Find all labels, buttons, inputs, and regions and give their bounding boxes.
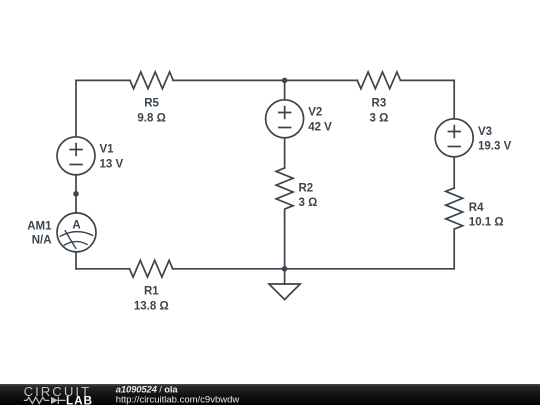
label V1: [100, 144, 124, 171]
node dot V1-AM1: [73, 191, 79, 197]
svg-text:V2: V2: [308, 107, 322, 119]
ammeter AM1: [57, 213, 96, 252]
voltage source V2: [266, 100, 304, 138]
resistor R2: [276, 168, 293, 216]
svg-text:N/A: N/A: [32, 235, 52, 247]
svg-text:R2: R2: [299, 182, 314, 194]
svg-text:13.8 Ω: 13.8 Ω: [134, 301, 169, 313]
wire bottom segment A: [76, 268, 130, 270]
label R2: [299, 182, 318, 209]
svg-text:13 V: 13 V: [100, 158, 124, 170]
node top junction: [282, 78, 288, 84]
svg-text:3 Ω: 3 Ω: [299, 197, 318, 209]
resistor R4: [446, 188, 463, 236]
label R4: [469, 202, 504, 229]
wire V2 to R2: [284, 138, 286, 168]
wire R2 to bottom junction: [284, 216, 286, 269]
svg-text:42 V: 42 V: [308, 121, 332, 133]
wire V1 to AM1: [75, 175, 77, 213]
wire bottom segment B: [173, 268, 455, 270]
svg-text:3 Ω: 3 Ω: [369, 112, 388, 124]
svg-text:9.8 Ω: 9.8 Ω: [137, 112, 165, 124]
wire right rail bottom: [453, 236, 455, 269]
label V2: [308, 107, 332, 134]
resistor R3: [357, 72, 400, 89]
ground: [269, 269, 300, 300]
svg-text:19.3 V: 19.3 V: [478, 141, 512, 153]
footer bar: [0, 384, 540, 405]
wire left rail top: [75, 80, 77, 136]
wire top junction to V2: [284, 80, 286, 99]
label R3: [369, 97, 388, 124]
svg-text:V1: V1: [100, 144, 115, 156]
svg-text:R1: R1: [144, 286, 159, 298]
wire AM1 to bottom: [75, 252, 77, 269]
node bottom junction: [282, 266, 288, 272]
logo diode: [51, 397, 58, 404]
voltage source V3: [435, 119, 473, 157]
svg-text:10.1 Ω: 10.1 Ω: [469, 217, 504, 229]
resistor R5: [130, 72, 173, 89]
label R1: [134, 286, 169, 313]
svg-text:V3: V3: [478, 126, 492, 138]
wire V3 to R4: [453, 157, 455, 188]
svg-text:A: A: [72, 219, 80, 231]
svg-text:AM1: AM1: [27, 221, 52, 233]
label R5: [137, 97, 165, 124]
label V3: [478, 126, 512, 153]
resistor R1: [130, 260, 173, 277]
voltage source V1: [57, 137, 95, 175]
wire top segment C: [401, 79, 455, 81]
wire top segment B: [173, 79, 357, 81]
wire right rail to V3: [453, 80, 455, 118]
svg-text:R5: R5: [144, 97, 159, 109]
svg-text:R3: R3: [372, 97, 387, 109]
label AM1: [27, 221, 52, 247]
wire top segment A: [76, 79, 130, 81]
svg-text:R4: R4: [469, 202, 484, 214]
logo resistor zigzag: [24, 397, 50, 403]
